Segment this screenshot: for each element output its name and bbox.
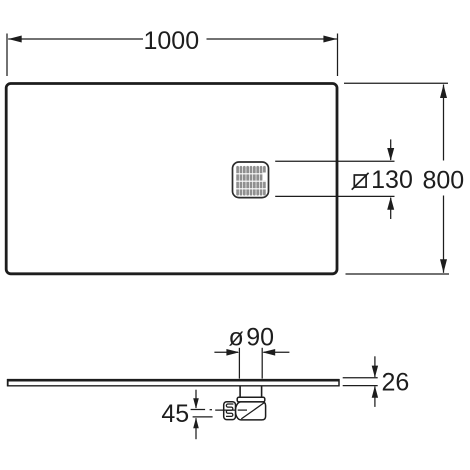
svg-text:ø90: ø90 [229, 324, 275, 352]
dimension 800: extension lines [344, 83, 449, 274]
dimension 130: square symbol [352, 173, 369, 190]
side-view tray profile [7, 379, 340, 386]
siphon body diagonal [241, 402, 264, 419]
dimension 1000: extension lines [7, 34, 338, 77]
siphon collar flange [237, 397, 265, 402]
drain grate perforation pattern [235, 167, 266, 194]
dimension 130: extension lines [275, 161, 394, 196]
dimension 45: upper arrow [193, 390, 199, 409]
drain grate outline [233, 162, 269, 198]
dimension o90: arrows [214, 349, 289, 356]
dimension 26: upper arrow [372, 356, 378, 377]
dimension 45: lower arrow [193, 418, 199, 440]
dimension 800: dimension line [443, 85, 445, 273]
dimension 45: reference lines [193, 416, 213, 418]
dimension 130: upper arrow [387, 139, 394, 160]
dimension 800: top arrowhead [440, 85, 447, 99]
centerline (dash-dot) of drain outlet: left segments [191, 409, 212, 411]
centerline dash across connector and inside siphon [215, 409, 247, 411]
tray top-view outline [6, 84, 337, 274]
corrugated outlet connector [224, 402, 236, 420]
svg-text:26: 26 [381, 368, 409, 396]
dimension 130: lower arrow [387, 197, 394, 219]
svg-text:130: 130 [371, 166, 413, 194]
svg-text:1000: 1000 [143, 27, 199, 55]
siphon body [235, 402, 265, 420]
dimension 1000: right arrowhead [323, 36, 337, 43]
svg-text:800: 800 [422, 167, 464, 195]
dimension 1000: left arrowhead [8, 36, 22, 43]
dimension o90: extension lines [239, 348, 262, 379]
dimension 1000: dimension line [8, 38, 337, 40]
drain pipe below tray [240, 386, 262, 397]
svg-text:45: 45 [161, 400, 189, 428]
dimension 800: bottom arrowhead [440, 259, 447, 273]
dimension 26: lower arrow [372, 386, 378, 407]
dimension 26: extension lines [343, 378, 378, 386]
